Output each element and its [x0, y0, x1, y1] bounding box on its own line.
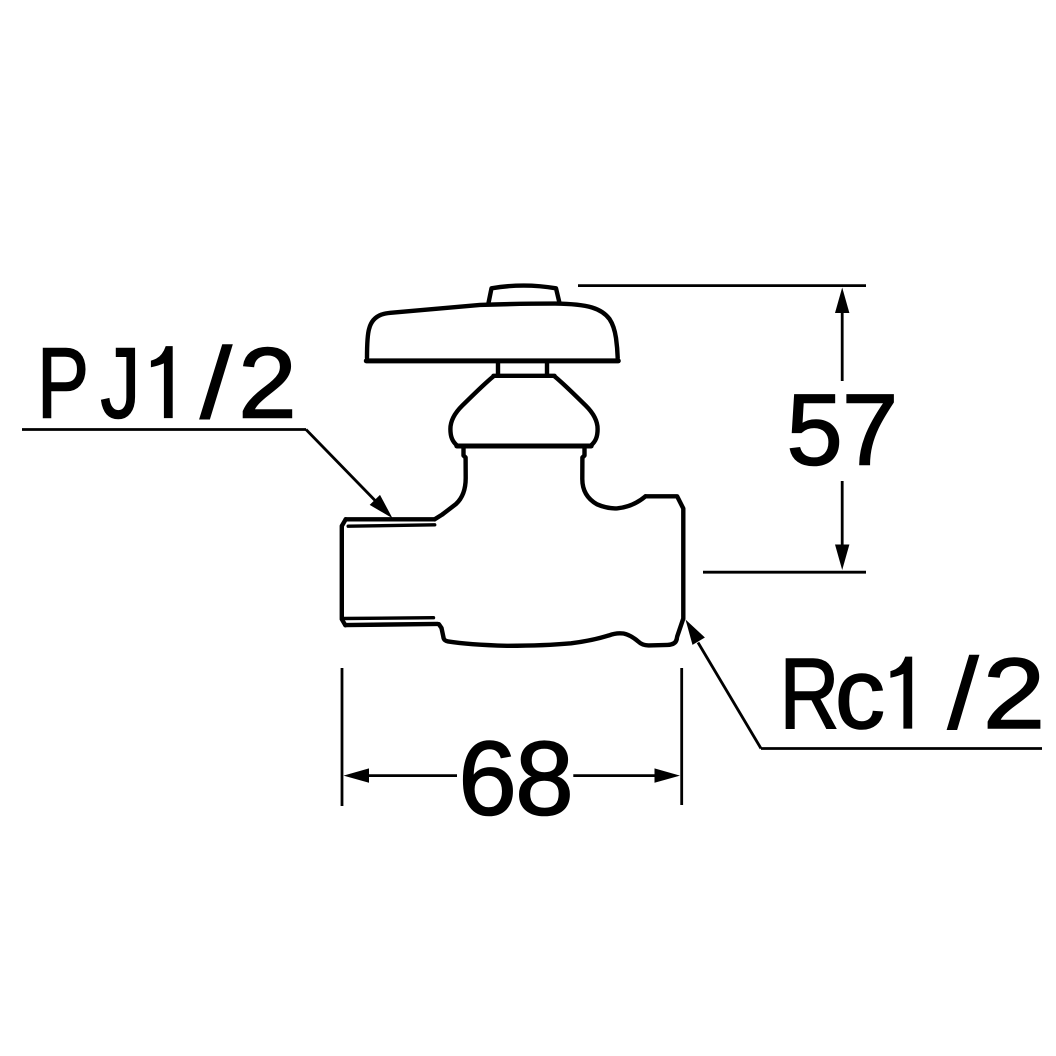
- svg-text:2: 2: [983, 639, 1045, 750]
- svg-text:/: /: [948, 639, 979, 750]
- svg-text:c: c: [835, 638, 885, 750]
- svg-text:R: R: [780, 639, 840, 750]
- svg-text:68: 68: [458, 721, 573, 838]
- svg-text:P: P: [37, 328, 89, 440]
- svg-text:J: J: [100, 328, 140, 440]
- svg-text:/: /: [200, 327, 232, 439]
- svg-text:57: 57: [787, 375, 899, 487]
- svg-text:2: 2: [238, 327, 296, 439]
